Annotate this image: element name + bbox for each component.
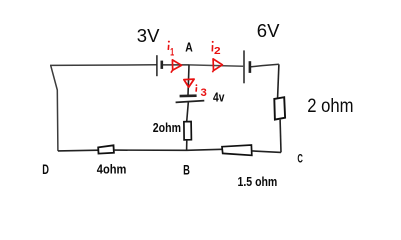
resistor R 1.5ohm (222, 145, 252, 155)
label i3 (red) (196, 84, 207, 99)
svg-text:2 ohm: 2 ohm (307, 96, 353, 117)
battery 6V (244, 50, 250, 83)
resistor R 2ohm right (274, 97, 285, 119)
battery 4v (176, 96, 205, 103)
node B label (183, 161, 190, 177)
svg-text:3: 3 (201, 87, 207, 99)
node A label (185, 39, 193, 54)
node D label (42, 162, 49, 177)
svg-text:A: A (185, 39, 193, 54)
wire bottom 4ohm to 1.5ohm (through node B) (114, 149, 222, 150)
label i2 (red) (212, 41, 221, 57)
wire right vertical lower (C to 2ohm resistor) (279, 120, 282, 153)
label 2ohm (153, 121, 181, 135)
svg-text:4ohm: 4ohm (97, 162, 127, 177)
label i1 (red) (168, 41, 174, 59)
svg-text:D: D (42, 162, 49, 177)
wire 6V battery to top-right corner (250, 64, 279, 67)
wire bottom D to 4ohm (58, 149, 99, 152)
node C label (297, 153, 303, 166)
svg-text:2: 2 (214, 45, 221, 57)
label 4v (213, 91, 224, 105)
svg-text:4v: 4v (213, 91, 224, 105)
wire bottom 1.5ohm to corner C (252, 151, 281, 153)
wire top-left horizontal (50, 64, 157, 67)
wire 4v battery down to 2ohm resistor (187, 102, 189, 121)
wire right vertical upper (corner to resistor top) (278, 64, 279, 97)
wire node A to 6V battery (189, 65, 243, 66)
wire 3V battery to node A (163, 64, 189, 66)
resistor R 2ohm middle (184, 122, 192, 140)
label 4ohm (97, 162, 127, 177)
current arrow i1 (171, 60, 182, 73)
svg-text:C: C (297, 153, 303, 166)
svg-text:B: B (183, 161, 190, 177)
label 1.5 ohm (238, 174, 278, 189)
battery 3V (157, 55, 162, 76)
label 6V (257, 20, 280, 41)
svg-text:3V: 3V (137, 25, 160, 46)
label 2 ohm (307, 96, 353, 117)
label 3V (137, 25, 160, 46)
wire 2ohm resistor to bottom wire (186, 140, 188, 150)
svg-text:6V: 6V (257, 20, 280, 41)
current arrow i2 (212, 59, 222, 72)
wire left vertical (node D branch) (51, 65, 58, 150)
svg-text:1: 1 (170, 47, 174, 59)
wire node A down to 4v battery (188, 65, 189, 95)
resistor R 4ohm (98, 145, 114, 153)
svg-text:1.5 ohm: 1.5 ohm (238, 174, 278, 189)
current arrow i3 (184, 79, 194, 87)
svg-text:2ohm: 2ohm (153, 121, 181, 135)
